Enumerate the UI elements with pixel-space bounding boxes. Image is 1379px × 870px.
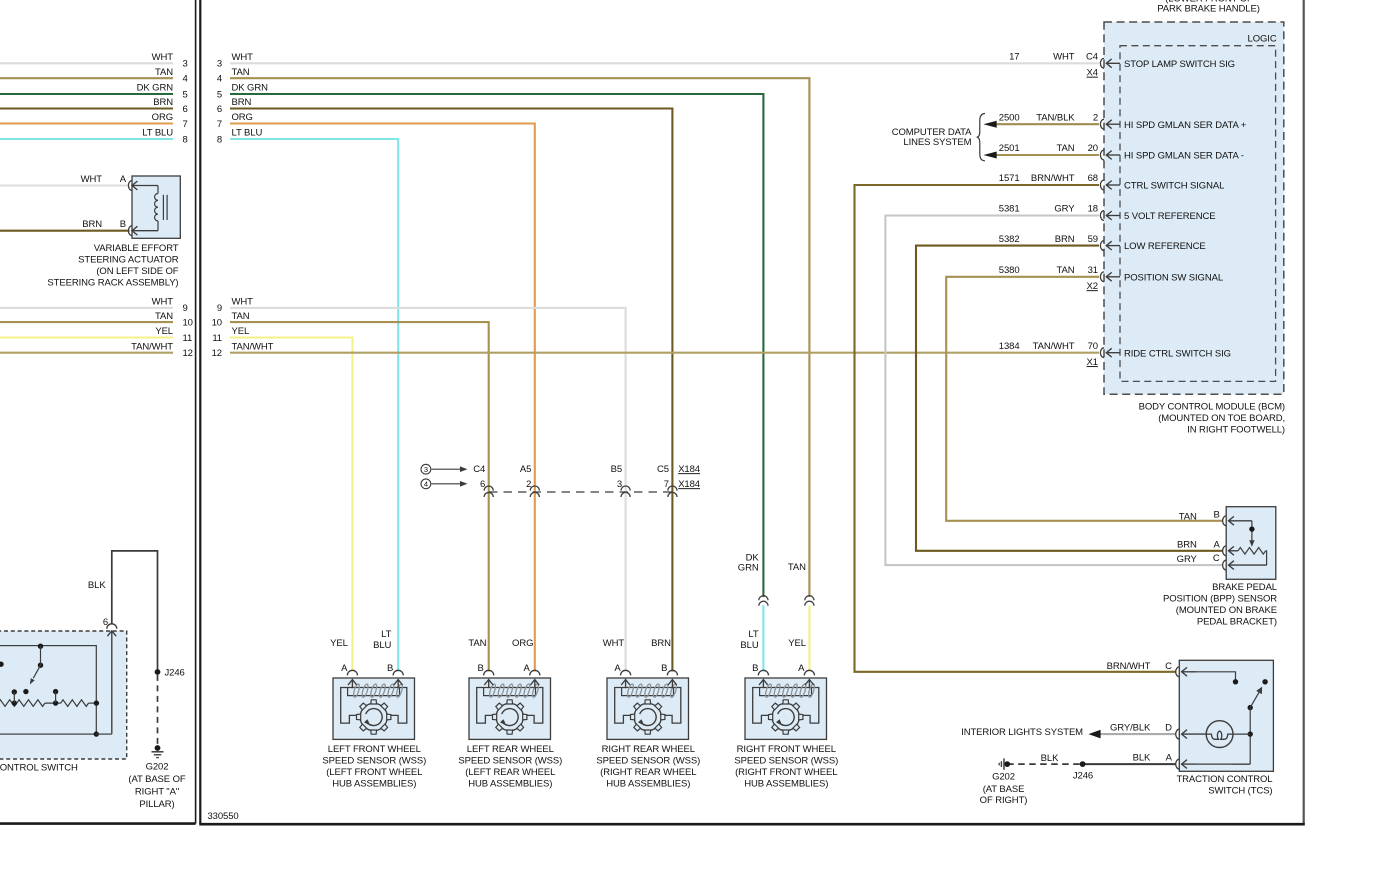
page 2 right border	[1303, 0, 1305, 824]
BCM pin 68 CTRL SWITCH SIGNAL	[1100, 180, 1104, 190]
svg-text:9: 9	[217, 303, 222, 314]
svg-text:(AT BASE: (AT BASE	[983, 784, 1025, 795]
wire LT BLU row8 down to LF WSS pin B	[230, 139, 398, 672]
svg-text:LEFT FRONT WHEEL: LEFT FRONT WHEEL	[328, 744, 421, 755]
svg-text:D: D	[1165, 723, 1172, 734]
svg-text:BLK: BLK	[1133, 753, 1151, 764]
svg-text:C: C	[1165, 661, 1172, 672]
svg-text:WHT: WHT	[232, 297, 254, 308]
wire BLK dashed to G202 (page1)	[157, 675, 159, 745]
svg-text:OF RIGHT): OF RIGHT)	[980, 795, 1028, 806]
svg-text:BLU: BLU	[373, 640, 391, 651]
wire page1 row 12 TAN/WHT	[0, 352, 173, 354]
svg-text:TRACTION CONTROL: TRACTION CONTROL	[1176, 774, 1272, 785]
svg-text:J246: J246	[165, 668, 185, 679]
svg-text:TAN: TAN	[788, 562, 806, 573]
svg-text:LINES SYSTEM: LINES SYSTEM	[903, 137, 971, 148]
svg-text:INTERIOR LIGHTS SYSTEM: INTERIOR LIGHTS SYSTEM	[961, 727, 1083, 738]
wheel speed sensor RIGHT FRONT WSS	[745, 663, 827, 739]
wire BLK TCS pin A to J246	[1083, 763, 1176, 765]
svg-text:DK GRN: DK GRN	[232, 83, 269, 94]
wire page1 row 6 BRN	[0, 107, 173, 109]
svg-text:TAN/WHT: TAN/WHT	[1033, 341, 1075, 352]
svg-text:12: 12	[212, 348, 222, 359]
svg-text:11: 11	[183, 333, 193, 344]
svg-text:4: 4	[183, 74, 188, 85]
TCS switch contacts	[1196, 672, 1236, 682]
svg-text:B: B	[752, 663, 758, 674]
svg-text:LT BLU: LT BLU	[142, 128, 173, 139]
svg-text:BRN: BRN	[1177, 540, 1197, 551]
svg-text:CONTROL SWITCH: CONTROL SWITCH	[0, 762, 78, 773]
svg-text:PEDAL BRACKET): PEDAL BRACKET)	[1197, 617, 1277, 628]
BCM pin 31 POSITION SW SIGNAL	[1100, 272, 1104, 282]
svg-text:WHT: WHT	[1053, 52, 1075, 63]
svg-text:B: B	[387, 663, 393, 674]
connector X184 dashed harness line	[489, 491, 674, 493]
svg-text:B: B	[1213, 510, 1219, 521]
svg-text:GRY: GRY	[1177, 554, 1198, 565]
svg-text:J246: J246	[1073, 770, 1093, 781]
BPP resistor	[1238, 548, 1266, 555]
svg-text:8: 8	[183, 134, 188, 145]
wire WHT row9 down to RR WSS pin A	[230, 308, 626, 672]
junction J246 (page1)	[155, 669, 161, 675]
svg-text:6: 6	[103, 617, 108, 628]
wire BRN row6 down to RR WSS pin B	[230, 109, 672, 672]
svg-text:CTRL SWITCH SIGNAL: CTRL SWITCH SIGNAL	[1124, 181, 1224, 192]
svg-text:17: 17	[1009, 52, 1019, 63]
BCM pin 20 HI SPD GMLAN SER DATA -	[1100, 150, 1104, 160]
svg-text:A: A	[798, 663, 805, 674]
svg-text:WHT: WHT	[152, 297, 174, 308]
BCM LOGIC inner dashed box	[1120, 46, 1276, 382]
svg-text:A: A	[1166, 753, 1173, 764]
svg-text:1384: 1384	[999, 341, 1020, 352]
inline connector DK GRN to LT BLU	[759, 596, 768, 601]
svg-text:ORG: ORG	[512, 638, 533, 649]
wire BRN to VES actuator pin B	[0, 230, 130, 232]
control switch wiper arm	[38, 644, 43, 649]
svg-text:HUB ASSEMBLIES): HUB ASSEMBLIES)	[606, 779, 690, 790]
circled ref 3	[421, 464, 431, 474]
svg-text:PILLAR): PILLAR)	[139, 799, 174, 810]
wire BLK dashed J246 to G202	[1007, 763, 1082, 765]
svg-text:68: 68	[1088, 173, 1098, 184]
svg-text:TAN: TAN	[1057, 265, 1075, 276]
svg-text:BRN: BRN	[1055, 234, 1075, 245]
circled ref 4	[421, 479, 431, 489]
wire page1 row 3 WHT	[0, 62, 173, 64]
svg-text:X4: X4	[1087, 68, 1098, 79]
wire GRY 5 VOLT REFERENCE to BPP pin C	[885, 216, 1222, 566]
svg-text:LEFT REAR WHEEL: LEFT REAR WHEEL	[467, 744, 554, 755]
svg-text:B5: B5	[611, 464, 622, 475]
interior lights system arrow	[1088, 730, 1100, 739]
wire WHT to VES actuator pin A	[0, 184, 130, 186]
wire GRY/BLK TCS pin D to interior lights	[1101, 733, 1176, 735]
TCS box	[1176, 660, 1274, 771]
wire page1 row 7 ORG	[0, 122, 173, 124]
svg-text:2500: 2500	[999, 112, 1020, 123]
svg-text:RIGHT FRONT WHEEL: RIGHT FRONT WHEEL	[737, 744, 836, 755]
svg-text:X2: X2	[1087, 281, 1098, 292]
svg-text:B: B	[477, 663, 483, 674]
TCS lamp	[1206, 721, 1233, 748]
control switch inner box	[0, 646, 96, 735]
svg-text:STEERING ACTUATOR: STEERING ACTUATOR	[78, 254, 179, 265]
svg-text:RIGHT REAR WHEEL: RIGHT REAR WHEEL	[602, 744, 695, 755]
svg-text:WHT: WHT	[81, 174, 103, 185]
svg-text:7: 7	[183, 119, 188, 130]
svg-text:BRAKE PEDAL: BRAKE PEDAL	[1212, 582, 1277, 593]
wheel speed sensor LEFT REAR WSS	[469, 663, 551, 739]
svg-text:YEL: YEL	[155, 326, 173, 337]
svg-text:10: 10	[212, 317, 222, 328]
svg-text:BODY CONTROL MODULE (BCM): BODY CONTROL MODULE (BCM)	[1139, 401, 1285, 412]
page 1 bottom border	[0, 822, 196, 825]
svg-text:7: 7	[217, 119, 222, 130]
svg-text:(MOUNTED ON TOE BOARD,: (MOUNTED ON TOE BOARD,	[1158, 413, 1285, 424]
svg-text:TAN/BLK: TAN/BLK	[1036, 112, 1075, 123]
svg-text:BRN/WHT: BRN/WHT	[1107, 661, 1151, 672]
svg-text:TAN: TAN	[232, 311, 250, 322]
page 2 bottom border	[199, 823, 1305, 826]
svg-text:11: 11	[212, 333, 222, 344]
wire YEL row11 down to LF WSS pin A	[230, 338, 352, 672]
BCM pin C4 STOP LAMP SWITCH SIG	[1100, 58, 1104, 68]
svg-text:SWITCH (TCS): SWITCH (TCS)	[1208, 786, 1272, 797]
svg-text:X184: X184	[678, 464, 700, 475]
wire page1 row 8 LT BLU	[0, 138, 173, 140]
svg-text:POSITION SW SIGNAL: POSITION SW SIGNAL	[1124, 272, 1223, 283]
svg-text:LT: LT	[381, 629, 391, 640]
svg-text:12: 12	[183, 348, 193, 359]
svg-text:LT BLU: LT BLU	[232, 128, 263, 139]
svg-text:YEL: YEL	[232, 326, 250, 337]
svg-text:5380: 5380	[999, 265, 1020, 276]
svg-text:SPEED SENSOR (WSS): SPEED SENSOR (WSS)	[734, 756, 838, 767]
svg-text:5: 5	[217, 89, 222, 100]
svg-text:5: 5	[183, 89, 188, 100]
ground G202 (page1)	[155, 745, 161, 751]
svg-text:TAN: TAN	[1057, 143, 1075, 154]
svg-text:GRY/BLK: GRY/BLK	[1110, 722, 1151, 733]
svg-text:TAN: TAN	[1179, 511, 1197, 522]
brace computer data lines	[977, 114, 985, 161]
control switch pin 6	[94, 731, 99, 736]
svg-text:STOP LAMP SWITCH SIG: STOP LAMP SWITCH SIG	[1124, 59, 1235, 70]
wire TAN row4 down to RF inline connector	[230, 78, 809, 597]
svg-text:5 VOLT REFERENCE: 5 VOLT REFERENCE	[1124, 211, 1216, 222]
svg-text:TAN: TAN	[155, 67, 173, 78]
svg-text:HUB ASSEMBLIES): HUB ASSEMBLIES)	[744, 779, 828, 790]
svg-text:WHT: WHT	[603, 638, 625, 649]
svg-text:STEERING RACK ASSEMBLY): STEERING RACK ASSEMBLY)	[47, 277, 178, 288]
wire page1 row 4 TAN	[0, 77, 173, 79]
wheel speed sensor RIGHT REAR WSS	[607, 663, 689, 739]
svg-text:SPEED SENSOR (WSS): SPEED SENSOR (WSS)	[322, 756, 426, 767]
svg-text:(LEFT FRONT WHEEL: (LEFT FRONT WHEEL	[326, 767, 422, 778]
svg-text:(ON LEFT SIDE OF: (ON LEFT SIDE OF	[96, 266, 178, 277]
svg-text:VARIABLE EFFORT: VARIABLE EFFORT	[94, 243, 179, 254]
svg-text:X1: X1	[1087, 357, 1098, 368]
svg-text:X184: X184	[678, 479, 700, 490]
svg-text:HUB ASSEMBLIES): HUB ASSEMBLIES)	[468, 779, 552, 790]
svg-text:BRN: BRN	[153, 97, 173, 108]
svg-text:ORG: ORG	[232, 112, 253, 123]
gear RR	[634, 703, 661, 730]
wire ORG row7 down to LR WSS pin A	[230, 124, 535, 672]
svg-text:6: 6	[217, 104, 222, 115]
ground G202 (page2)	[1004, 761, 1010, 767]
svg-text:BRN/WHT: BRN/WHT	[1031, 173, 1075, 184]
svg-text:10: 10	[183, 317, 193, 328]
svg-text:2501: 2501	[999, 143, 1020, 154]
svg-text:SPEED SENSOR (WSS): SPEED SENSOR (WSS)	[458, 756, 562, 767]
BPP wiper	[1251, 521, 1253, 541]
svg-text:RIGHT "A": RIGHT "A"	[135, 786, 179, 797]
BCM pin 59 LOW REFERENCE	[1100, 241, 1104, 251]
svg-text:1571: 1571	[999, 173, 1020, 184]
svg-text:C4: C4	[1086, 52, 1098, 63]
svg-text:5381: 5381	[999, 204, 1020, 215]
svg-text:TAN/WHT: TAN/WHT	[232, 341, 274, 352]
svg-text:DK GRN: DK GRN	[137, 83, 174, 94]
svg-text:18: 18	[1088, 204, 1098, 215]
svg-text:6: 6	[183, 104, 188, 115]
svg-text:31: 31	[1088, 265, 1098, 276]
wire LT BLU to RF WSS pin B	[762, 605, 764, 671]
svg-text:G202: G202	[992, 771, 1015, 782]
svg-text:TAN: TAN	[232, 67, 250, 78]
BCM pin 70 RIDE CTRL SWITCH SIG	[1100, 348, 1104, 358]
svg-text:GRY: GRY	[1054, 204, 1075, 215]
control switch resistors	[0, 700, 45, 707]
svg-text:8: 8	[217, 134, 222, 145]
wire page1 row 11 YEL	[0, 336, 173, 338]
svg-text:C4: C4	[473, 464, 485, 475]
wire BLK from control switch pin 6	[112, 551, 158, 670]
svg-text:(RIGHT FRONT WHEEL: (RIGHT FRONT WHEEL	[735, 767, 837, 778]
wire TAN/BLK HI SPD GMLAN SER DATA +	[995, 123, 1099, 125]
svg-text:LOGIC: LOGIC	[1248, 34, 1277, 45]
svg-text:9: 9	[183, 303, 188, 314]
svg-text:B: B	[120, 219, 126, 230]
svg-text:SPEED SENSOR (WSS): SPEED SENSOR (WSS)	[596, 756, 700, 767]
svg-text:C5: C5	[657, 464, 669, 475]
wire TAN POSITION SW SIGNAL to BPP pin B	[946, 277, 1222, 521]
svg-text:YEL: YEL	[330, 638, 348, 649]
svg-text:4: 4	[217, 74, 222, 85]
wire DK GRN row5 down to RF inline connector	[230, 94, 763, 597]
svg-text:GRN: GRN	[738, 563, 759, 574]
wire page1 row 10 TAN	[0, 321, 173, 323]
svg-text:(AT BASE OF: (AT BASE OF	[128, 774, 185, 785]
svg-text:3: 3	[217, 59, 222, 70]
svg-text:(LEFT REAR WHEEL: (LEFT REAR WHEEL	[465, 767, 555, 778]
svg-text:TAN/WHT: TAN/WHT	[131, 341, 173, 352]
svg-text:BLK: BLK	[1041, 753, 1059, 764]
svg-text:TAN: TAN	[468, 638, 486, 649]
svg-text:WHT: WHT	[152, 52, 174, 63]
svg-text:ORG: ORG	[152, 112, 173, 123]
svg-text:HI SPD GMLAN SER DATA -: HI SPD GMLAN SER DATA -	[1124, 151, 1244, 162]
svg-text:70: 70	[1088, 341, 1098, 352]
svg-text:BRN: BRN	[651, 638, 671, 649]
svg-text:4: 4	[424, 480, 428, 489]
wheel speed sensor LEFT FRONT WSS	[333, 663, 415, 739]
svg-text:2: 2	[1093, 112, 1098, 123]
gear LR	[496, 703, 523, 730]
svg-text:A: A	[1213, 540, 1220, 551]
svg-text:3: 3	[183, 59, 188, 70]
svg-text:(MOUNTED ON BRAKE: (MOUNTED ON BRAKE	[1176, 605, 1277, 616]
wire WHT row3 to BCM STOP LAMP SWITCH SIG	[230, 62, 1099, 64]
gear RF	[772, 703, 799, 730]
svg-text:WHT: WHT	[232, 52, 254, 63]
svg-text:A: A	[524, 663, 531, 674]
svg-text:20: 20	[1088, 143, 1098, 154]
computer data lines system arrows	[983, 121, 996, 128]
svg-text:3: 3	[424, 465, 428, 474]
svg-text:YEL: YEL	[788, 638, 806, 649]
svg-text:TAN: TAN	[155, 311, 173, 322]
svg-text:BLU: BLU	[740, 640, 758, 651]
wire BRN/WHT CTRL SWITCH SIGNAL to TCS pin C	[855, 185, 1176, 672]
wire page1 row 5 DK GRN	[0, 93, 173, 95]
svg-text:RIDE CTRL SWITCH SIG: RIDE CTRL SWITCH SIG	[1124, 348, 1231, 359]
svg-text:BRN: BRN	[82, 219, 102, 230]
gear LF	[360, 703, 387, 730]
svg-text:C: C	[1213, 553, 1220, 564]
svg-text:59: 59	[1088, 234, 1098, 245]
wire page1 row 9 WHT	[0, 307, 173, 309]
coil U? inside VES actuator	[155, 194, 158, 201]
control switch dashed box	[0, 631, 127, 759]
wire TAN/WHT row12 to BCM RIDE CTRL SWITCH SIG	[230, 352, 1099, 354]
page 2 left border	[199, 0, 201, 824]
page 1 right border	[195, 0, 197, 824]
svg-text:G202: G202	[146, 762, 169, 773]
svg-text:LOW REFERENCE: LOW REFERENCE	[1124, 241, 1206, 252]
BCM outer dashed box	[1104, 22, 1284, 394]
BCM pin 2 HI SPD GMLAN SER DATA +	[1100, 119, 1104, 129]
BCM pin 18 5 VOLT REFERENCE	[1100, 211, 1104, 221]
wire TAN HI SPD GMLAN SER DATA -	[995, 154, 1099, 156]
svg-text:BLK: BLK	[88, 580, 106, 591]
svg-text:BRN: BRN	[232, 97, 252, 108]
BPP sensor box	[1223, 507, 1276, 580]
svg-text:(RIGHT REAR WHEEL: (RIGHT REAR WHEEL	[600, 767, 696, 778]
svg-text:LT: LT	[748, 629, 758, 640]
svg-text:POSITION (BPP) SENSOR: POSITION (BPP) SENSOR	[1163, 594, 1277, 605]
wire TAN row10 down to LR WSS pin B	[230, 322, 489, 671]
inline connector TAN to YEL	[805, 596, 814, 601]
svg-text:IN RIGHT FOOTWELL): IN RIGHT FOOTWELL)	[1187, 425, 1285, 436]
junction J246 (page2)	[1080, 761, 1086, 767]
svg-text:330550: 330550	[208, 811, 239, 822]
svg-text:A: A	[341, 663, 348, 674]
wire YEL to RF WSS pin A	[808, 605, 810, 671]
svg-text:A5: A5	[520, 464, 531, 475]
svg-text:5382: 5382	[999, 234, 1020, 245]
wire BRN LOW REFERENCE to BPP pin A	[916, 246, 1223, 551]
svg-text:B: B	[661, 663, 667, 674]
svg-text:A: A	[614, 663, 621, 674]
svg-text:A: A	[120, 174, 127, 185]
svg-text:PARK BRAKE HANDLE): PARK BRAKE HANDLE)	[1157, 4, 1260, 15]
svg-text:HI SPD GMLAN SER DATA +: HI SPD GMLAN SER DATA +	[1124, 120, 1247, 131]
svg-text:HUB ASSEMBLIES): HUB ASSEMBLIES)	[332, 779, 416, 790]
